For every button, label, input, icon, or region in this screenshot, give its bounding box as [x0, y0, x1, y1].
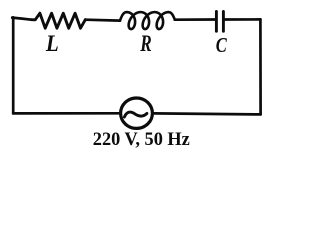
svg-text:L: L [45, 31, 59, 57]
svg-text:220 V, 50 Hz: 220 V, 50 Hz [93, 129, 191, 150]
svg-text:C: C [216, 33, 228, 57]
svg-text:R: R [139, 31, 151, 57]
